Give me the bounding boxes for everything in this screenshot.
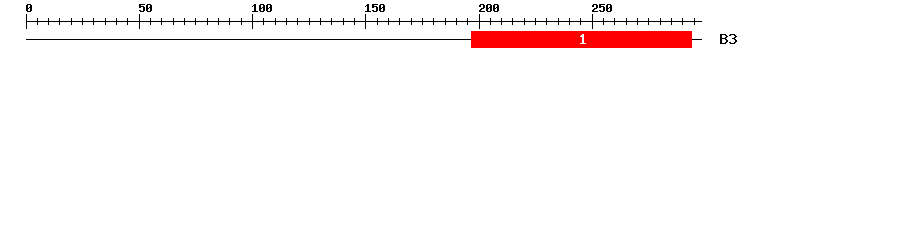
ruler scale label 200 (479, 4, 499, 12)
ruler major tick 250 (592, 14, 593, 29)
ruler major tick 200 (479, 14, 480, 29)
ruler major tick 100 (252, 14, 253, 29)
feature bar B3 (red box) (471, 31, 692, 48)
feature name label B3 (720, 34, 737, 44)
ruler scale label 50 (139, 4, 152, 12)
ruler major tick 0 (26, 14, 27, 29)
ruler scale label 0 (26, 4, 32, 12)
ruler scale label 250 (592, 4, 612, 12)
ruler minor ticks (every 5 units) (37, 18, 695, 25)
ruler major tick 50 (139, 14, 140, 29)
ruler major tick 150 (365, 14, 366, 29)
feature bar number 1 (white) (580, 34, 586, 44)
ruler scale label 100 (252, 4, 272, 12)
ruler baseline (26, 21, 702, 22)
track line for feature B3 (26, 39, 702, 40)
ruler scale label 150 (365, 4, 385, 12)
